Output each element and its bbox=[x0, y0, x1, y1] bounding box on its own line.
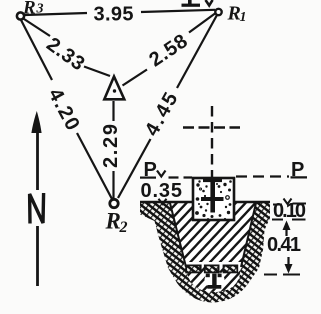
svg-text:R: R bbox=[105, 209, 121, 234]
svg-text:3.95: 3.95 bbox=[94, 4, 134, 26]
distance label 2.29 bbox=[100, 124, 122, 168]
reference line P-P dashes right bbox=[236, 175, 289, 177]
buried plate section middle bbox=[205, 265, 219, 272]
dashed horizontal axis bbox=[183, 126, 240, 128]
excavation outer rough band bbox=[140, 201, 270, 303]
pit interior (white) bbox=[170, 203, 256, 293]
ground surface line bbox=[140, 201, 270, 203]
svg-text:2: 2 bbox=[119, 219, 128, 236]
distance label 4.45 bbox=[141, 89, 183, 140]
svg-text:0.41: 0.41 bbox=[267, 234, 301, 256]
triangulation station (triangle symbol) bbox=[104, 77, 124, 100]
label R2 bbox=[105, 209, 128, 237]
baseline R3-R1 bbox=[25, 10, 215, 15]
buried plate section left bbox=[186, 265, 201, 272]
line R1-station bbox=[123, 14, 216, 86]
pit wall right bbox=[241, 203, 256, 267]
monument block bbox=[193, 178, 234, 220]
block anchor T bbox=[201, 179, 224, 213]
partial text 1V cut off at top bbox=[182, 0, 213, 7]
station point R2 bbox=[110, 199, 118, 207]
reference line P-P right label bbox=[291, 159, 308, 181]
pit interior hatch bbox=[170, 203, 256, 293]
station point R3 bbox=[17, 12, 24, 19]
dimension 0.35 bbox=[141, 180, 183, 204]
dimension 0.41 with arrows bbox=[264, 221, 301, 275]
north arrow shaft bbox=[36, 131, 39, 286]
label R1 bbox=[227, 3, 247, 26]
svg-text:2.29: 2.29 bbox=[100, 124, 122, 168]
svg-text:R: R bbox=[22, 0, 36, 19]
svg-text:1: 1 bbox=[240, 10, 247, 25]
north arrow head bbox=[31, 111, 41, 133]
distance label 2.58 bbox=[145, 30, 191, 71]
line R3-R2 bbox=[21, 20, 112, 199]
svg-text:3: 3 bbox=[36, 2, 44, 17]
line R1-R2 bbox=[118, 15, 217, 198]
line R3-station bbox=[24, 19, 110, 76]
pit wall left bbox=[170, 203, 186, 267]
svg-text:0.35: 0.35 bbox=[141, 180, 183, 202]
distance label 2.33 bbox=[42, 33, 88, 75]
north label N bbox=[26, 190, 48, 226]
distance label 3.95 bbox=[94, 4, 134, 26]
buried T mark bbox=[206, 274, 222, 289]
distance label 4.20 bbox=[44, 85, 84, 134]
dimension 0.10 bbox=[272, 199, 306, 223]
reference line P-P left label bbox=[140, 159, 166, 181]
line station-R2 bbox=[112, 101, 114, 198]
station point R1 bbox=[215, 9, 221, 15]
reference line P-P dashes left bbox=[169, 176, 193, 178]
label R3 bbox=[22, 0, 44, 19]
dashed centerline of monument bbox=[211, 106, 213, 179]
buried plate section right bbox=[224, 265, 238, 272]
